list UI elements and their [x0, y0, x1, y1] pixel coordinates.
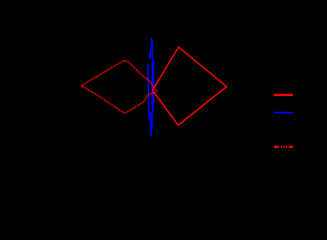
legend blue solid handle	[274, 112, 293, 114]
legend red dashed handle	[274, 146, 293, 148]
red dotted left lobe curve	[82, 61, 157, 113]
legend red solid handle	[274, 94, 293, 96]
red solid right diamond curve	[153, 47, 227, 125]
blue spike curve strokes	[148, 38, 154, 136]
